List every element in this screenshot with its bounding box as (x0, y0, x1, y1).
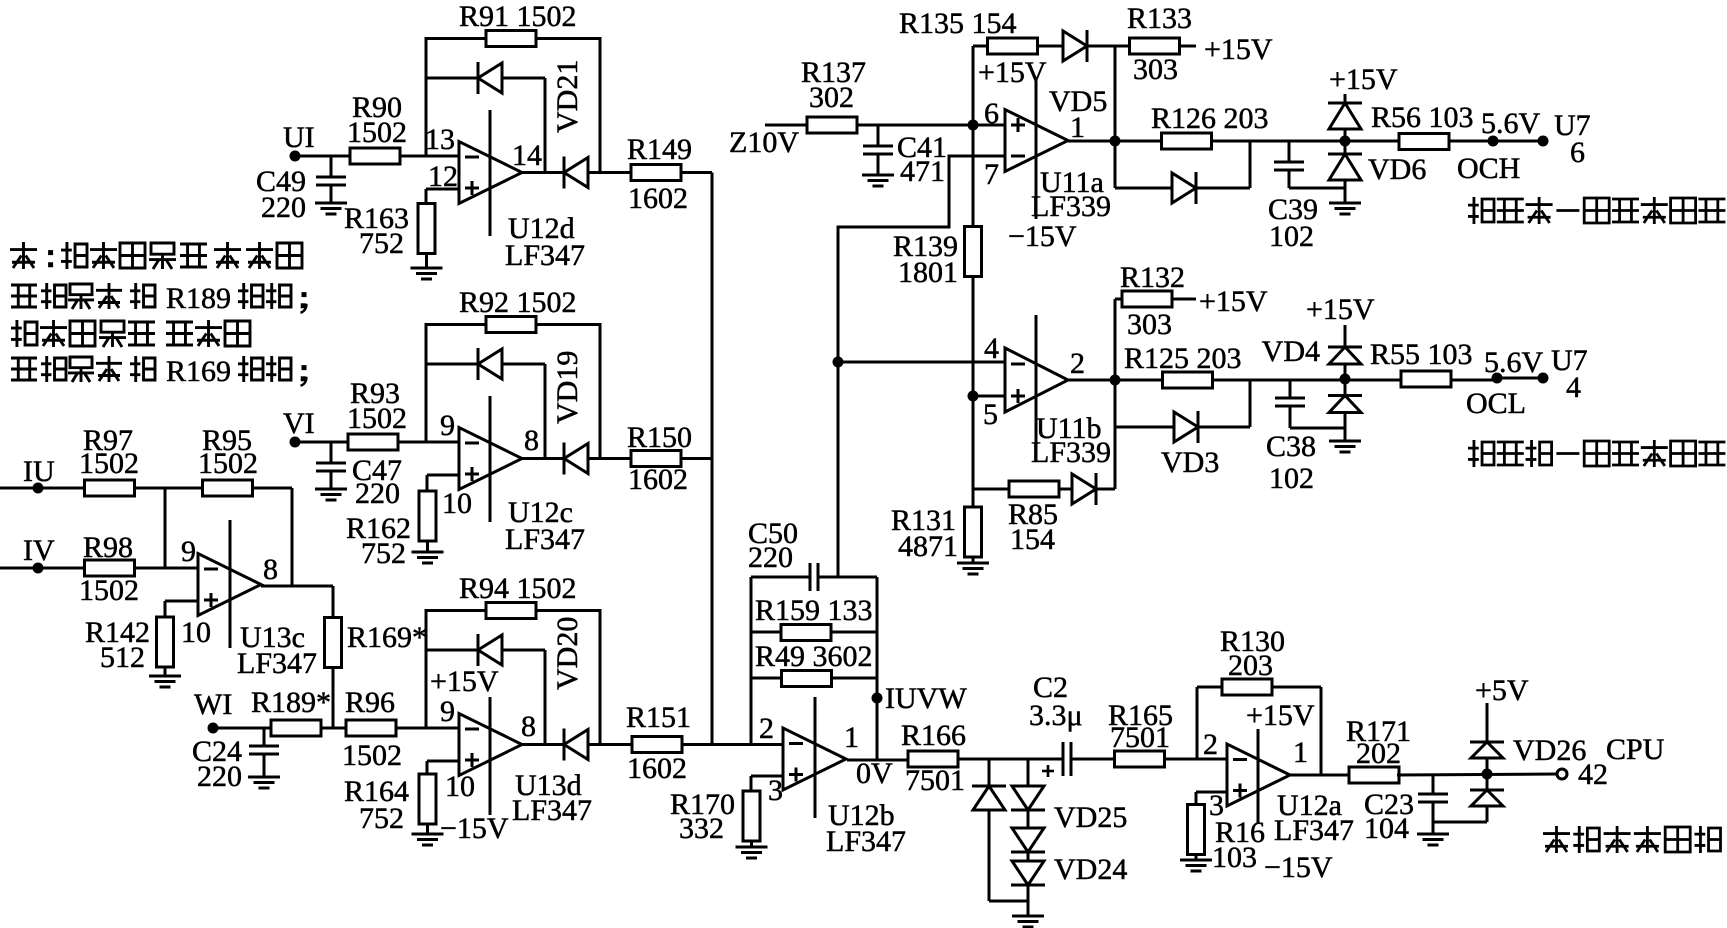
svg-text:13: 13 (425, 123, 455, 156)
svg-text:R92 1502: R92 1502 (459, 286, 577, 319)
terminal CPU 42 (1557, 769, 1567, 779)
diode (R135 chain) (1063, 31, 1087, 61)
label shuchu duanxiang jiance (CPU) (1543, 826, 1570, 853)
svg-text:7501: 7501 (905, 764, 965, 797)
diode VD26 lower (1486, 774, 1489, 790)
wire R137 to node (856, 124, 973, 127)
diode VD3 (1174, 412, 1198, 442)
ground (R142) (164, 667, 167, 676)
svg-text:9: 9 (440, 695, 455, 728)
wire R85 chain (973, 488, 1009, 491)
svg-text:R133: R133 (1127, 2, 1192, 35)
capacitor C50 (809, 563, 812, 591)
svg-text:+15V: +15V (1306, 293, 1375, 326)
node VD26 (1482, 769, 1493, 780)
svg-text:752: 752 (361, 537, 406, 570)
resistor R139 (972, 125, 975, 227)
svg-text:R135 154: R135 154 (899, 7, 1017, 40)
svg-text:1602: 1602 (628, 463, 688, 496)
svg-text:1801: 1801 (898, 256, 958, 289)
wire R93 to pin 9 (397, 441, 459, 444)
svg-text:R169: R169 (166, 355, 231, 388)
svg-text:R126 203: R126 203 (1151, 102, 1269, 135)
svg-text:303: 303 (1133, 53, 1178, 86)
svg-text:220: 220 (197, 760, 242, 793)
resistor R90 (350, 148, 400, 164)
resistor R91 (486, 31, 536, 47)
svg-text:220: 220 (748, 541, 793, 574)
op-amp U12b (783, 728, 846, 790)
wire UI to R90 (295, 155, 352, 158)
svg-text:202: 202 (1356, 737, 1401, 770)
resistor R149 (631, 165, 681, 181)
op-amp U13d (459, 714, 522, 776)
resistor R93 (348, 434, 398, 450)
svg-text:WI: WI (194, 688, 232, 721)
resistor R165 (1115, 751, 1165, 767)
resistor R171 (1349, 767, 1399, 783)
svg-text:9: 9 (181, 535, 196, 568)
wire R165 to U12a (1165, 758, 1227, 761)
capacitor C38 (1289, 380, 1292, 398)
resistor R131 (972, 489, 975, 508)
node U11a output (1110, 136, 1121, 147)
diode VD21 (563, 157, 566, 189)
ground (C47) (315, 488, 347, 491)
wire R135 to diode (1037, 45, 1063, 48)
wire R159 branch (751, 631, 782, 634)
ground (C24) (248, 776, 280, 779)
svg-text:VD3: VD3 (1161, 446, 1219, 479)
svg-text:IV: IV (23, 534, 55, 567)
wire feedback network frame (750, 577, 753, 743)
wire feedback diode D-U12d (426, 77, 478, 80)
resistor R126 (1162, 133, 1212, 149)
note text line 3 (11, 320, 37, 347)
svg-text:+15V: +15V (1246, 699, 1315, 732)
note text line 2 (11, 285, 37, 307)
svg-text:OCH: OCH (1457, 152, 1520, 185)
svg-text:14: 14 (512, 139, 542, 172)
resistor R164 (427, 760, 459, 763)
wire U13c output (261, 585, 333, 588)
svg-text:220: 220 (355, 477, 400, 510)
diode VD25 (1027, 759, 1030, 786)
svg-text:302: 302 (809, 81, 854, 114)
svg-text:4: 4 (1566, 371, 1581, 404)
svg-text:VI: VI (283, 407, 315, 440)
svg-text:103: 103 (1212, 841, 1257, 874)
svg-text:LF339: LF339 (1031, 436, 1111, 469)
diode VD20 (563, 729, 566, 761)
svg-text:4871: 4871 (898, 530, 958, 563)
svg-text:R56 103: R56 103 (1371, 101, 1474, 134)
op-amp U11a (1005, 110, 1068, 172)
svg-text:7501: 7501 (1110, 721, 1170, 754)
svg-text:8: 8 (521, 710, 536, 743)
svg-text:+15V: +15V (1204, 33, 1273, 66)
capacitor C39 (1288, 141, 1291, 162)
resistor R49 (782, 671, 832, 687)
wire IV input (0, 567, 85, 570)
resistor R130 (1222, 679, 1272, 695)
wire node to R135 (972, 46, 975, 125)
svg-text:1602: 1602 (628, 182, 688, 215)
note text line 1 (10, 242, 37, 269)
wire U11b output (1068, 379, 1162, 382)
wire feedback diode (U11a) (1114, 141, 1117, 188)
svg-text:332: 332 (679, 812, 724, 845)
wire diode to output node (1096, 488, 1115, 491)
svg-text:Z10V: Z10V (729, 126, 799, 159)
svg-text:2: 2 (1203, 728, 1218, 761)
svg-text:7: 7 (984, 158, 999, 191)
diode VD24 (1027, 852, 1030, 861)
svg-text:4: 4 (984, 332, 999, 365)
label yanshi chang - guzhang guo dianliu (OCL) (1468, 440, 1494, 467)
svg-text:VD25: VD25 (1054, 801, 1127, 834)
node U11b output (1110, 375, 1121, 386)
svg-text:102: 102 (1269, 462, 1314, 495)
svg-text:C38: C38 (1266, 430, 1316, 463)
resistor R142 (165, 600, 198, 603)
svg-text:OCL: OCL (1466, 387, 1526, 420)
svg-text:303: 303 (1127, 308, 1172, 341)
svg-text:220: 220 (261, 191, 306, 224)
svg-text:6: 6 (1570, 136, 1585, 169)
svg-text:+15V: +15V (1199, 285, 1268, 318)
capacitor C47 (330, 442, 333, 463)
wire R90 to pin 13 (399, 155, 459, 158)
wire pin 6 (973, 124, 1005, 127)
wire C2 to R165 (1071, 758, 1114, 761)
svg-text:10: 10 (181, 616, 211, 649)
node VD4 (1340, 374, 1351, 385)
svg-text:R55 103: R55 103 (1370, 338, 1473, 371)
svg-text:1602: 1602 (627, 752, 687, 785)
resistor R170 (751, 775, 783, 778)
ground (R164) (426, 824, 429, 834)
capacitor C23 (1432, 775, 1435, 794)
wire R49 branch (751, 677, 782, 680)
svg-text:R150: R150 (627, 421, 692, 454)
wire R95 feedback to output (252, 487, 292, 490)
svg-text:VD24: VD24 (1054, 853, 1127, 886)
wire U12c output (522, 457, 564, 460)
wire R125 to OCL chain (1213, 379, 1497, 382)
wire to R132 (1114, 299, 1117, 380)
resistor R163 (426, 188, 459, 191)
diode VD6 lower (1328, 153, 1362, 156)
wire junction down to output node (1114, 46, 1117, 141)
svg-text:VD5: VD5 (1049, 85, 1107, 118)
wire feedback loop R91 (426, 39, 600, 173)
wire R171 to CPU (1397, 774, 1557, 775)
resistor R92 (486, 317, 536, 333)
resistor R166 (908, 751, 958, 767)
diode (R126 feedback) (1172, 173, 1196, 203)
node U7 pin 4 (1538, 373, 1549, 384)
wire R133 to +15V (1179, 45, 1196, 48)
svg-text:1502: 1502 (347, 402, 407, 435)
svg-text:VD4: VD4 (1262, 335, 1320, 368)
ground (R162) (426, 541, 429, 552)
svg-text:R151: R151 (626, 701, 691, 734)
svg-text:VD21: VD21 (551, 60, 584, 133)
svg-text:752: 752 (359, 802, 404, 835)
svg-text:1502: 1502 (347, 116, 407, 149)
svg-text:5.6V: 5.6V (1481, 107, 1541, 140)
capacitor C2 (1062, 742, 1065, 776)
svg-text:UI: UI (283, 121, 315, 154)
diode VD20fb (feedback) (477, 634, 480, 666)
svg-text:104: 104 (1364, 812, 1409, 845)
node IUVW (872, 693, 883, 704)
svg-text:42: 42 (1578, 758, 1608, 791)
resistor R135 (988, 38, 1038, 54)
svg-text:512: 512 (100, 641, 145, 674)
resistor R125 (1163, 372, 1213, 388)
diode (R85 chain) (1072, 474, 1096, 504)
svg-text:−15V: −15V (440, 812, 509, 845)
capacitor C49 (330, 156, 333, 177)
svg-text:VD19: VD19 (551, 351, 584, 424)
resistor R133 (1130, 38, 1180, 54)
wire pin 5 (973, 395, 1005, 398)
diode VD19 (563, 443, 566, 475)
wire VD26 lower to ground (1486, 806, 1489, 822)
op-amp U12c (459, 428, 522, 490)
wire U12a output (1290, 774, 1351, 777)
svg-text:1: 1 (1293, 736, 1308, 769)
resistor R55 (1401, 371, 1451, 387)
resistor R151 (632, 737, 682, 753)
wire VI to R93 (295, 441, 347, 444)
svg-text:10: 10 (442, 487, 472, 520)
wire R189 to R96 (321, 727, 346, 730)
svg-text:LF347: LF347 (1274, 814, 1354, 847)
svg-text:−15V: −15V (1264, 851, 1333, 884)
svg-text:+15V: +15V (430, 665, 499, 698)
ground (R170) (750, 840, 753, 847)
svg-text:9: 9 (440, 409, 455, 442)
svg-text:0V: 0V (856, 757, 893, 790)
diode VD19fb (feedback) (477, 348, 480, 380)
svg-text:−15V: −15V (1008, 220, 1077, 253)
wire WI to R189 (213, 727, 271, 730)
svg-text:R166: R166 (901, 719, 966, 752)
diode VD6 upper (1344, 94, 1347, 103)
wire R169 bottom (332, 667, 335, 728)
resistor R169* (332, 586, 335, 618)
ground (R163) (425, 254, 428, 269)
resistor R159 (781, 625, 831, 641)
node Z (pin 6 junction) (968, 120, 979, 131)
ground (VD4) (1344, 413, 1347, 442)
node pin4 rail (833, 357, 844, 368)
resistor R189* (271, 720, 321, 736)
svg-text:R149: R149 (627, 133, 692, 166)
svg-text:8: 8 (524, 424, 539, 457)
svg-text:154: 154 (1010, 523, 1055, 556)
ground (R131) (972, 556, 975, 563)
svg-text:R132: R132 (1120, 261, 1185, 294)
svg-text:2: 2 (759, 712, 774, 745)
svg-text:5.6V: 5.6V (1484, 346, 1544, 379)
wire U13d output (522, 743, 564, 746)
svg-text:LF347: LF347 (237, 647, 317, 680)
svg-text:VD6: VD6 (1368, 153, 1426, 186)
resistor R85 (1009, 481, 1059, 497)
diode VD26 upper (1486, 703, 1489, 742)
diode clamp left (VD25 pair) (988, 759, 991, 786)
ground (C41) (862, 174, 894, 177)
svg-text:R96: R96 (345, 686, 395, 719)
wire R85 to diode (1059, 488, 1072, 491)
wire U12b output (847, 759, 907, 762)
svg-text:R125 203: R125 203 (1124, 342, 1242, 375)
wire diode to R133 junction (1087, 45, 1130, 48)
node U7 pin 6 (1538, 136, 1549, 147)
svg-text:+5V: +5V (1475, 674, 1529, 707)
diode D-U12d (feedback) (477, 62, 480, 94)
wire R126 to OCH chain (1212, 140, 1493, 143)
resistor R56 (1399, 134, 1449, 150)
diode middle (VD25 chain) (1027, 810, 1030, 828)
wire pin 7 to left rail (838, 156, 1005, 578)
svg-text:R159 133: R159 133 (755, 594, 873, 627)
wire feedback diode VD3 (1114, 380, 1117, 427)
svg-text:IUVW: IUVW (885, 682, 967, 715)
resistor R150 (631, 451, 681, 467)
svg-text:R94 1502: R94 1502 (459, 572, 577, 605)
resistor R162 (427, 474, 459, 477)
wire Z10V to R137 (765, 124, 808, 127)
wire R166 to C2 (959, 758, 1063, 761)
svg-text:R189: R189 (166, 282, 231, 315)
wire OCH to U7 (1493, 140, 1543, 143)
svg-text:10: 10 (445, 770, 475, 803)
svg-text:8: 8 (263, 553, 278, 586)
svg-text:102: 102 (1269, 220, 1314, 253)
ground (C49) (315, 202, 347, 205)
op-amp U13c (198, 554, 261, 616)
wire R150 to bus (681, 457, 712, 460)
svg-text:VD20: VD20 (551, 617, 584, 690)
resistor R16 (1196, 791, 1227, 794)
capacitor C24 (263, 728, 266, 746)
ground (R16) (1195, 854, 1198, 860)
svg-text:1502: 1502 (198, 447, 258, 480)
node pin 5 (U11b) (968, 391, 979, 402)
svg-text:LF347: LF347 (826, 825, 906, 858)
resistor R97 (85, 480, 135, 496)
svg-text:3: 3 (768, 774, 783, 807)
svg-text:+15V: +15V (1329, 63, 1398, 96)
svg-text:752: 752 (359, 227, 404, 260)
op-amp U12a (1227, 744, 1290, 806)
resistor R98 (85, 560, 135, 576)
wire OCL to U7 (1497, 377, 1543, 380)
svg-text:LF347: LF347 (505, 523, 585, 556)
svg-text:1: 1 (844, 721, 859, 754)
svg-text:LF347: LF347 (512, 794, 592, 827)
svg-text:LF347: LF347 (505, 239, 585, 272)
resistor R95 (203, 480, 253, 496)
wire bus R149/R150/R151 (711, 173, 714, 745)
svg-text:R189*: R189* (251, 686, 331, 719)
node VD6 (1340, 136, 1351, 147)
capacitor C41 (877, 125, 880, 146)
wire feedback diode VD20fb (426, 649, 478, 652)
wire feedback loop R92 (426, 325, 600, 459)
svg-text:1502: 1502 (342, 739, 402, 772)
wire R132 to +15V (1172, 298, 1196, 301)
wire U11a output (1068, 140, 1161, 143)
svg-text:203: 203 (1228, 649, 1273, 682)
ground (VD6) (1344, 180, 1347, 203)
wire IU input (0, 487, 85, 490)
node OCH (1488, 136, 1499, 147)
svg-text:5: 5 (983, 398, 998, 431)
svg-text:2: 2 (1070, 347, 1085, 380)
svg-text:R49 3602: R49 3602 (755, 640, 873, 673)
ground (VD24) (1027, 885, 1030, 916)
wire feedback loop R94 (426, 611, 600, 745)
wire U12d output (522, 171, 564, 174)
resistor R137 (807, 117, 857, 133)
wire R97 to R95 (134, 487, 203, 490)
wire feedback diode VD19fb (426, 363, 478, 366)
wire R139 to pin5 node (972, 276, 975, 489)
wire R98 to pin 9 of U13c (134, 567, 198, 570)
ground (C23) (1417, 833, 1449, 836)
svg-text:VD26: VD26 (1513, 734, 1586, 767)
wire R96 to U13d (396, 727, 459, 730)
wire feedback R130 (1196, 687, 1199, 759)
resistor R94 (486, 603, 536, 619)
op-amp U12d (459, 142, 522, 204)
svg-text:3.3μ: 3.3μ (1029, 699, 1083, 732)
svg-text:R169*: R169* (347, 621, 427, 654)
wire R151 to U12b (682, 743, 783, 746)
note text line 4 (11, 358, 37, 380)
resistor R132 (1122, 291, 1172, 307)
diode VD4 upper (1344, 325, 1347, 347)
svg-text:R91 1502: R91 1502 (459, 0, 577, 33)
svg-text:LF339: LF339 (1031, 190, 1111, 223)
wire R149 to bus (681, 171, 712, 174)
node OCL (1492, 373, 1503, 384)
diode VD4 lower (1328, 394, 1362, 397)
svg-text:CPU: CPU (1606, 733, 1665, 766)
svg-text:R98: R98 (83, 531, 133, 564)
op-amp U11b (1005, 348, 1068, 412)
resistor R96 (346, 720, 396, 736)
wire pin 4 (838, 361, 1005, 364)
svg-text:1502: 1502 (79, 447, 139, 480)
svg-text:6: 6 (984, 97, 999, 130)
svg-text:471: 471 (900, 155, 945, 188)
label yanshi duan - guzhang guo dianliu (OCH) (1468, 197, 1494, 224)
svg-text:1502: 1502 (79, 574, 139, 607)
